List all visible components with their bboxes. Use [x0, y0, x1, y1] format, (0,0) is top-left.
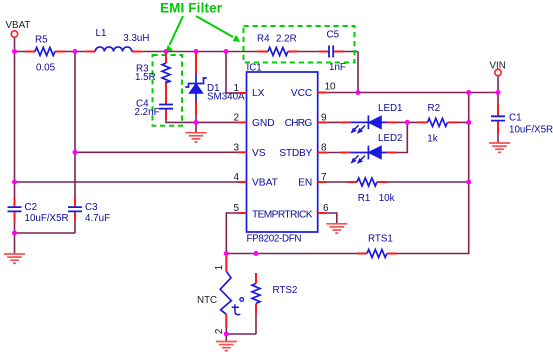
junction VS tap	[73, 150, 78, 155]
wire GND net y=122.4	[166, 114, 238, 122]
wire EN net y=182	[327, 181, 469, 183]
svg-text:C1: C1	[509, 113, 522, 124]
wire VBAT net y=182	[15, 181, 238, 183]
svg-text:6: 6	[323, 203, 329, 214]
junction R1/right rail	[466, 180, 471, 185]
IC1 pin numbers	[233, 82, 336, 215]
junction LX riser	[224, 49, 229, 54]
wire mid rail x=75	[74, 52, 76, 198]
svg-text:IC1: IC1	[247, 63, 262, 74]
junction C2 ground	[12, 231, 17, 236]
junction RTS2 top	[254, 251, 259, 256]
EMI arrow right	[196, 16, 239, 41]
junction C5 drop on VCC net	[356, 90, 361, 95]
svg-text:VS: VS	[252, 148, 266, 159]
svg-text:LED1: LED1	[378, 103, 403, 114]
junction NTC bottom	[224, 332, 229, 337]
svg-text:1.5R: 1.5R	[135, 72, 156, 83]
junction VBAT/R5	[12, 49, 17, 54]
IC1 pin stubs left	[238, 93, 247, 213]
capacitor C4	[135, 95, 174, 121]
capacitor C3	[68, 197, 110, 224]
svg-text:10uF/X5R: 10uF/X5R	[25, 213, 69, 224]
EMI arrow left	[166, 16, 183, 51]
svg-text:1: 1	[233, 83, 239, 94]
ground at C1	[489, 134, 510, 153]
wire VBAT left rail	[15, 37, 86, 197]
junction R5/L1 rail	[73, 49, 78, 54]
svg-text:EN: EN	[298, 178, 312, 189]
svg-text:VBAT: VBAT	[252, 178, 278, 189]
thermistor NTC	[197, 256, 244, 334]
junction LED1/LED2/R2	[405, 120, 410, 125]
junction NTC top	[224, 251, 229, 256]
svg-text:GND: GND	[252, 118, 275, 129]
svg-text:1k: 1k	[427, 133, 437, 144]
svg-text:2: 2	[214, 328, 225, 334]
junction VBAT net/C2	[12, 180, 17, 185]
resistor RTS1	[357, 234, 397, 258]
IC1 pin stubs right	[318, 93, 328, 214]
svg-text:CHRG: CHRG	[285, 118, 313, 129]
terminal VIN	[490, 60, 506, 75]
capacitor C1	[491, 104, 553, 135]
svg-text:R4: R4	[257, 34, 270, 45]
capacitor C5	[319, 30, 346, 74]
svg-text:4: 4	[233, 172, 239, 183]
svg-text:LX: LX	[252, 88, 265, 99]
diode D1 SM340A	[185, 52, 245, 116]
svg-text:STDBY: STDBY	[279, 148, 312, 159]
op-amp IC1 FP8202-DFN body	[247, 63, 318, 245]
svg-text:2.2nF: 2.2nF	[135, 107, 160, 118]
svg-text:VCC: VCC	[291, 88, 313, 99]
LED2	[340, 133, 402, 163]
svg-text:C3: C3	[85, 202, 98, 213]
svg-text:1: 1	[214, 264, 225, 270]
svg-text:C5: C5	[327, 30, 340, 41]
svg-text:FP8202-DFN: FP8202-DFN	[247, 234, 302, 245]
svg-text:C2: C2	[25, 202, 38, 213]
junction D1 tap	[194, 49, 199, 54]
resistor R5	[25, 35, 65, 74]
svg-text:0.05: 0.05	[36, 63, 56, 74]
svg-text:5: 5	[233, 203, 239, 214]
svg-text:L1: L1	[96, 28, 107, 39]
inductor L1	[85, 28, 149, 52]
wire pin1 riser	[226, 52, 238, 94]
junction R2/right rail	[466, 120, 471, 125]
junction D1 ground	[194, 120, 199, 125]
junction VCC/right rail	[466, 90, 471, 95]
LED1	[340, 103, 402, 133]
svg-text:10uF/X5R: 10uF/X5R	[509, 124, 553, 135]
wire pin6 to ground	[327, 213, 337, 223]
EMI dashed box left	[153, 55, 183, 126]
resistor R4	[257, 34, 298, 56]
wire STDBY net y=152.5	[327, 122, 407, 152]
svg-text:RTS2: RTS2	[273, 285, 298, 296]
svg-text:VIN: VIN	[490, 60, 506, 71]
svg-text:NTC: NTC	[197, 295, 217, 306]
terminal VBAT	[6, 20, 31, 37]
wire CHRG net y=122.4	[327, 121, 469, 123]
wire pin5 to NTC/RTS net	[226, 93, 468, 254]
wire C2 C3 bottom	[15, 222, 76, 253]
junction R3 tap	[164, 49, 169, 54]
svg-text:VBAT: VBAT	[6, 20, 31, 31]
junction VIN/C1	[496, 90, 501, 95]
svg-text:3.3uH: 3.3uH	[123, 33, 149, 44]
resistor RTS2	[252, 273, 297, 314]
resistor R1	[347, 178, 395, 204]
svg-text:LED2: LED2	[378, 133, 403, 144]
ground at NTC	[216, 342, 237, 351]
ground at C2	[4, 254, 25, 263]
svg-text:1nF: 1nF	[329, 62, 346, 73]
svg-text:2.2R: 2.2R	[276, 34, 297, 45]
wire top net after L1	[142, 52, 358, 93]
svg-text:8: 8	[321, 143, 327, 154]
ground at D1	[186, 122, 207, 142]
capacitor C2	[8, 197, 69, 224]
svg-text:TEMPRTRICK: TEMPRTRICK	[252, 209, 313, 220]
svg-text:RTS1: RTS1	[368, 234, 393, 245]
svg-text:7: 7	[321, 172, 327, 183]
svg-text:10: 10	[325, 82, 337, 93]
resistor R3	[135, 52, 170, 95]
wire VS net y=152.3	[75, 151, 238, 153]
svg-text:10k: 10k	[379, 193, 395, 204]
svg-text:R2: R2	[428, 103, 441, 114]
svg-text:R5: R5	[35, 35, 48, 46]
resistor R2	[418, 103, 458, 144]
wire VCC net y=92.5	[327, 76, 498, 104]
svg-text:2: 2	[233, 113, 239, 124]
svg-text:3: 3	[233, 143, 239, 154]
wire NTC bottom	[226, 314, 256, 341]
ground at pin6	[326, 224, 347, 233]
svg-text:9: 9	[321, 113, 327, 124]
EMI dashed box right	[244, 26, 355, 63]
svg-text:R1: R1	[358, 193, 371, 204]
svg-text:EMI Filter: EMI Filter	[160, 0, 223, 15]
svg-text:4.7uF: 4.7uF	[85, 213, 110, 224]
